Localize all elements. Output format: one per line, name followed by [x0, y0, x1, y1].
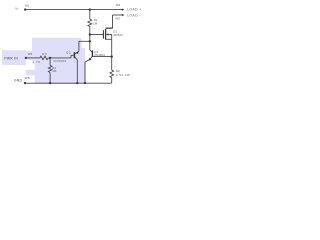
- svg-text:2N3904: 2N3904: [94, 53, 105, 57]
- svg-text:2N3906: 2N3906: [53, 59, 67, 63]
- junction dot branch: [89, 40, 91, 42]
- svg-text:W5: W5: [25, 76, 30, 80]
- wire Q1 emitter down: [85, 60, 89, 83]
- wire PWR IN: [26, 57, 40, 59]
- arrow mosfet body: [106, 33, 109, 35]
- resistor R2: [110, 70, 114, 83]
- selection highlight PWR IN label: [2, 50, 26, 65]
- mosfet D1 gate bar: [102, 30, 104, 39]
- transistor Q1 collector diag: [90, 50, 93, 52]
- svg-text:W3: W3: [115, 16, 120, 20]
- junction dot R1 top: [89, 8, 91, 10]
- transistor Q2 bar: [73, 52, 75, 58]
- wire top rail W1: [25, 9, 123, 11]
- junction dot R4 bottom: [49, 82, 51, 84]
- arrow LOAD-: [122, 14, 124, 16]
- svg-text:1M: 1M: [93, 21, 98, 25]
- junction dot PWR IN: [25, 57, 27, 59]
- wire R4 bottom lead: [49, 73, 51, 83]
- junction dot W1: [24, 8, 26, 10]
- svg-text:W2: W2: [116, 3, 121, 7]
- resistor R4: [48, 65, 52, 72]
- svg-text:IRF520: IRF520: [113, 33, 123, 37]
- junction dot R4 top: [49, 57, 51, 59]
- svg-text:0.92 2W: 0.92 2W: [116, 73, 130, 77]
- svg-text:1M: 1M: [52, 69, 57, 73]
- selection highlight W4 wire: [24, 51, 40, 60]
- junction dot Q2 rail: [76, 82, 78, 84]
- svg-text:4.7K: 4.7K: [32, 60, 41, 64]
- junction dot Q1 base sense: [111, 55, 113, 57]
- selection highlight mid block upper: [32, 38, 82, 61]
- wire drain riser: [106, 15, 113, 28]
- transistor Q1 base wire to sense node: [92, 56, 111, 58]
- wire L-branch to Q2: [79, 41, 90, 51]
- selection highlight emitter strip: [76, 48, 85, 84]
- wire R3 to Q2 base: [48, 57, 71, 59]
- transistor Q2 emitter diag top: [75, 51, 79, 54]
- wire gate node down to Q1 collector: [89, 35, 91, 50]
- junction dot gate node: [89, 33, 91, 35]
- wire LOAD- stub: [113, 14, 123, 16]
- mosfet D1 channel bar: [105, 29, 107, 40]
- svg-text:Q2: Q2: [66, 51, 71, 55]
- svg-text:W1: W1: [25, 3, 30, 7]
- transistor Q2 collector diag bottom: [75, 57, 78, 60]
- resistor R3: [40, 56, 48, 60]
- svg-text:PWR IN: PWR IN: [4, 57, 18, 61]
- arrow Q1 emitter: [89, 58, 92, 61]
- svg-text:GND: GND: [14, 79, 23, 83]
- selection highlight W5 area: [26, 70, 39, 76]
- wire gate: [90, 34, 104, 36]
- mosfet D1 body stub: [108, 34, 112, 36]
- svg-text:W4: W4: [28, 52, 33, 56]
- mosfet D1 source stub: [106, 38, 112, 40]
- transistor Q1 bar: [91, 50, 93, 57]
- svg-text:LOAD -: LOAD -: [127, 14, 141, 18]
- selection highlight mid block lower: [35, 60, 76, 84]
- transistor Q2 base lead: [71, 55, 74, 58]
- wire source riser down: [111, 35, 113, 71]
- wire R1 bottom to gate node: [89, 27, 91, 35]
- svg-text:LOAD +: LOAD +: [127, 8, 141, 12]
- arrow LOAD+: [122, 9, 124, 11]
- wire R1 top lead: [89, 10, 91, 19]
- junction dot Q1 rail: [84, 82, 86, 84]
- svg-text:V+: V+: [15, 6, 19, 10]
- transistor Q1 emitter diag: [89, 57, 92, 60]
- mosfet D1 drain stub: [106, 27, 113, 29]
- wire Q2 collector down: [76, 60, 78, 83]
- svg-text:R3: R3: [42, 52, 47, 56]
- junction dot GND: [24, 82, 26, 84]
- arrow Q2 emitter (PNP into bar): [75, 51, 78, 54]
- resistor R1: [88, 19, 92, 27]
- wire bottom rail GND: [25, 82, 112, 84]
- wire R4 top lead: [49, 58, 51, 65]
